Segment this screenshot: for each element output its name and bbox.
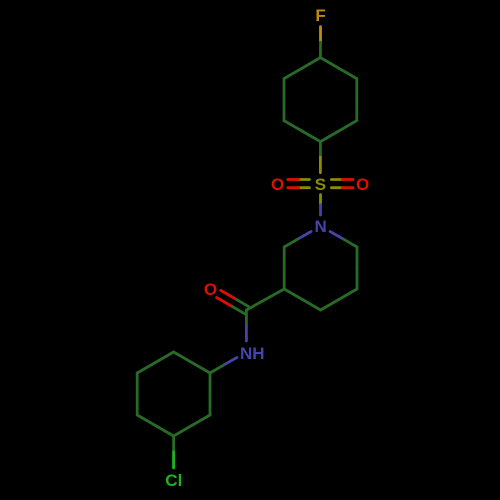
bond C2b-C3b ring B [192, 415, 210, 426]
bond C2a-C1a ring A [284, 121, 302, 132]
bond C3p-Cco (to carbonyl) [265, 289, 284, 300]
bond C3b-Cl [172, 436, 175, 452]
bond C6p-C5p piperidine [356, 247, 359, 268]
bond C5b-C6b ring B [137, 363, 155, 374]
bond C4-C3a ring A [302, 58, 320, 69]
double bond S=O right [331, 186, 342, 189]
bond C6b-C1b ring B [174, 352, 192, 363]
svg-text:S: S [315, 175, 326, 194]
bond C5p-C4p piperidine [339, 289, 357, 300]
bond C5a-C6a ring A [355, 79, 358, 100]
bond F-C4 (aryl C-F) [319, 27, 322, 42]
bond Cco-Nam amide [245, 310, 248, 326]
bond C1a-S [319, 142, 322, 158]
bond C3b-C4b ring B [155, 426, 173, 437]
bond C4b-C5b ring B [136, 394, 139, 415]
bond C3p-C4p piperidine [284, 289, 302, 300]
bond C1b-C2b ring B [209, 373, 212, 394]
svg-text:O: O [271, 175, 284, 194]
svg-text:NH: NH [240, 344, 265, 363]
bond C3a-C2a ring A [283, 79, 286, 100]
svg-text:N: N [315, 217, 327, 236]
bond S-N1 [319, 195, 322, 205]
svg-text:O: O [204, 280, 217, 299]
svg-text:O: O [356, 175, 369, 194]
svg-text:F: F [315, 6, 325, 25]
bond Nam-C1b anilide [223, 358, 237, 366]
svg-text:Cl: Cl [165, 471, 182, 490]
double bond S=O left [299, 178, 310, 181]
bond C4-C5a ring A [320, 58, 338, 69]
bond C6a-C1a ring A [339, 121, 357, 132]
bond N1-C6p piperidine [330, 232, 344, 240]
bond N1-C2p piperidine [298, 232, 312, 240]
double bond Cco=O amide [235, 298, 249, 306]
bond C2p-C3p piperidine [283, 247, 286, 268]
